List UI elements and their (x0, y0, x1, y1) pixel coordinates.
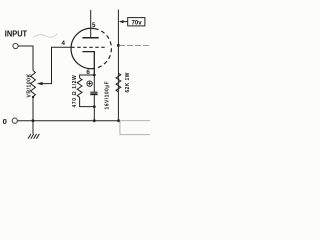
plate supply bus (117, 10, 119, 121)
resistor 62K 1W (on bus) (116, 73, 121, 92)
wire bus tap to right edge (119, 44, 150, 46)
svg-text:5: 5 (92, 22, 96, 29)
wire 0V line (18, 120, 120, 122)
junction bus tap (117, 44, 120, 47)
capacitor 16V/100µF polarity mark (87, 81, 92, 86)
wire pot bottom to ground bus (32, 97, 34, 134)
wire faded 0V continuation right (120, 120, 150, 122)
junction cap/resistor bottom (93, 105, 96, 108)
capacitor 16V/100µF (93, 75, 95, 92)
svg-text:INPUT: INPUT (5, 30, 27, 39)
0V terminal (12, 118, 17, 123)
svg-text:4: 4 (62, 40, 66, 47)
svg-text:70v: 70v (132, 19, 143, 26)
wiper arrow of VR (37, 82, 43, 85)
input terminal (13, 43, 18, 48)
wire wiper to grid (42, 47, 71, 83)
svg-text:16V/100µF: 16V/100µF (105, 81, 111, 110)
wire resistor bottom to cap bottom (80, 97, 95, 106)
tube plate (82, 37, 98, 39)
resistor 470Ω 1/2W (77, 78, 82, 97)
svg-text:62K 1W: 62K 1W (125, 72, 131, 92)
svg-text:VR/100K: VR/100K (27, 73, 33, 97)
faint scan mark (33, 34, 58, 38)
junction pot/0V line (32, 119, 35, 122)
junction cathode node (93, 74, 96, 77)
junction cathode branch to 0V line (93, 119, 96, 122)
svg-text:470 Ω 1/2W: 470 Ω 1/2W (72, 75, 78, 108)
wire input to pot top (18, 46, 33, 71)
potentiometer VR/100K (31, 71, 36, 97)
junction pot bottom (32, 96, 34, 98)
plate lead to top (90, 10, 92, 38)
voltage callout box 70v (128, 18, 145, 26)
tube V1 envelope (half shown, dashed right side) (71, 28, 95, 68)
tube cathode (82, 52, 94, 75)
wire faded step to lower right (120, 121, 150, 135)
wire cathode node to resistor (80, 75, 95, 78)
voltage arrow to bus (119, 20, 124, 23)
svg-text:0: 0 (3, 117, 7, 126)
junction bus to 0V line (117, 119, 120, 122)
tube grid (dashed) (71, 46, 107, 48)
ground (28, 134, 39, 139)
